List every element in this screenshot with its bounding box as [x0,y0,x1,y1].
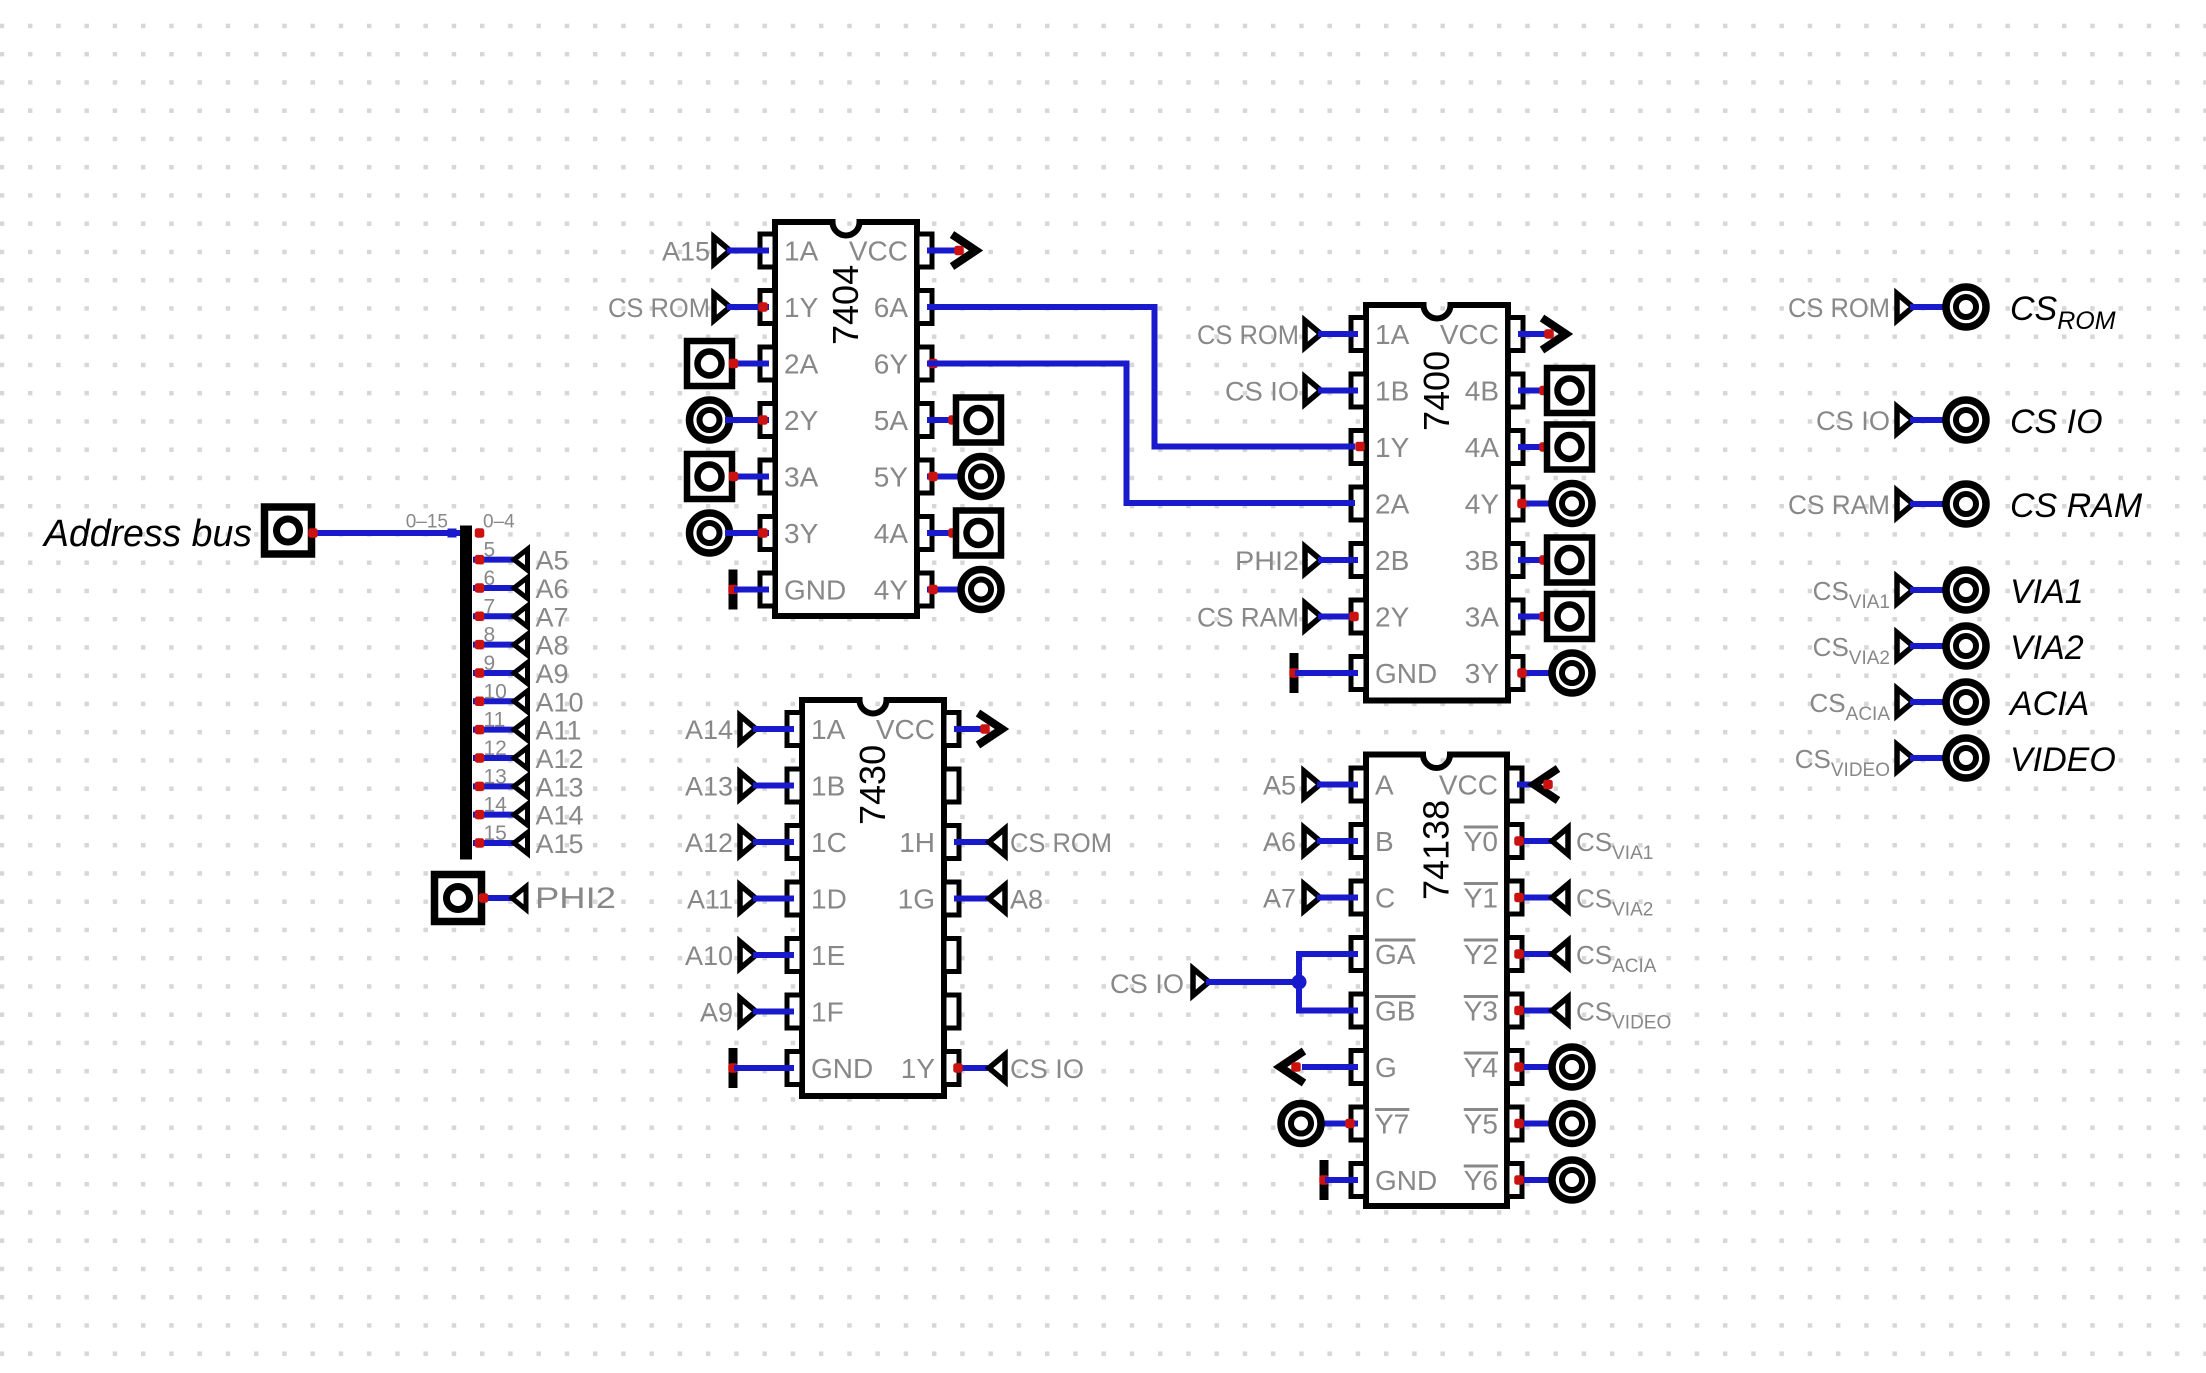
svg-text:A12: A12 [685,828,733,858]
output port VIA1: pad (double circle) [1946,570,1986,610]
svg-text:1E: 1E [811,940,845,971]
wire U4 GND to ground [1328,1177,1355,1183]
svg-text:C: C [1375,883,1395,914]
IC 7430 left pin stub row 6 [787,995,802,1028]
node: red dot at Address bus port [308,528,318,538]
IC 7404 right pin stub row 6 [917,517,932,550]
IC 7400 left pin stub row 6 [1351,600,1366,633]
wire U4 Y3 to CS VIDEO label [1520,1008,1552,1014]
svg-text:GA: GA [1375,939,1416,970]
port (unconnected input) U1 3A [687,454,732,499]
svg-text:CS RAM: CS RAM [2010,487,2143,525]
IC 7404 left pin stub row 3 [760,347,775,380]
net label A7 -> U4 C [1263,884,1355,914]
IC 7430 left pin stub row 5 [787,939,802,972]
svg-text:CS IO: CS IO [1816,406,1890,436]
net label A14 -> U3 1A [685,715,791,745]
svg-text:CS ROM: CS ROM [1197,320,1299,350]
junction dot CS IO [1292,975,1307,990]
IC 7400 left pin stub row 2 [1351,374,1366,407]
output port VIDEO: pad (double circle) [1946,738,1986,778]
net label A9 -> U3 1F [700,998,791,1028]
port (unconnected input) U1 2A [687,341,732,386]
svg-text:A12: A12 [536,744,584,774]
port (unconnected output) U4 Y7 [1322,1121,1355,1127]
VCC symbol at U3 VCC [957,726,982,732]
IC 74138 left pin stub row 8 [1351,1164,1366,1197]
svg-text:4A: 4A [874,518,909,549]
bus bar (vertical) [460,526,472,860]
wire stub U1 6Y [930,361,940,367]
net label arrow CS ACIA at U4 Y2 [1552,941,1568,968]
svg-text:3A: 3A [784,462,819,493]
svg-text:VCC: VCC [1439,770,1498,801]
svg-text:1B: 1B [811,771,845,802]
IC 7400 left pin stub row 4 [1351,487,1366,520]
IC 74138 left pin stub row 7 [1351,1107,1366,1140]
svg-text:A14: A14 [536,801,584,831]
port (unconnected input) U2 3B [1521,557,1549,563]
IC 7400 right pin stub row 7 [1508,657,1523,690]
svg-text:G: G [1375,1052,1397,1083]
svg-text:1F: 1F [811,997,844,1028]
wire U3 1H to CS ROM label [957,839,989,845]
IC 74138 left pin stub row 5 [1351,994,1366,1027]
svg-text:GB: GB [1375,996,1415,1027]
port (unconnected output) U2 3Y [1521,670,1555,676]
wire U2 GND to ground [1298,670,1355,676]
port (unconnected output) U4 Y5 [1520,1121,1555,1127]
IC 7400 right pin stub row 5 [1508,544,1523,577]
wire U1 3A port [733,474,766,480]
bus tap A12 [475,737,584,774]
port (unconnected output) U1 4Y [930,587,964,593]
net label arrow A8 at U3 1G [989,885,1005,912]
net label arrow PHI2 [512,887,526,910]
wire U1 6Y to U2 2A [930,364,1352,504]
wire U3 GND to ground [737,1065,791,1071]
IC 7430 left pin stub row 7 [787,1052,802,1085]
svg-text:15: 15 [484,822,507,845]
svg-text:6: 6 [484,567,496,590]
svg-text:A9: A9 [536,659,569,689]
IC 7404 right pin stub row 5 [917,460,932,493]
IC 7430 left pin stub row 4 [787,882,802,915]
bus tap A9 [475,652,569,689]
svg-text:2Y: 2Y [1375,602,1410,633]
IC 7404 right pin stub row 1 [917,234,932,267]
svg-text:GND: GND [1375,1165,1437,1196]
IC 74138 right pin stub row 5 [1507,994,1522,1027]
IC 7430 right pin stub row 7 [944,1052,959,1085]
svg-text:1A: 1A [1375,319,1410,350]
svg-text:1B: 1B [1375,376,1409,407]
IC 74138 left pin stub row 4 [1351,938,1366,971]
IC 7404 right pin stub row 3 [917,347,932,380]
port (unconnected input) U2 3A [1521,614,1549,620]
svg-text:A7: A7 [536,602,569,632]
ground symbol at U3 GND [729,1048,738,1088]
IC 7400 right pin stub row 4 [1508,487,1523,520]
svg-text:Y7: Y7 [1375,1109,1409,1140]
wire U1 3Y port [728,530,766,536]
wire PHI2 port to label arrow [484,895,512,901]
svg-text:GND: GND [784,575,846,606]
svg-text:A10: A10 [536,687,584,717]
IC 7400 body [1366,305,1508,701]
wire U4 Y0 to CS VIA1 label [1520,838,1552,844]
svg-text:74138: 74138 [1416,800,1457,900]
output port CS IO: wire [1913,417,1948,423]
svg-text:Y3: Y3 [1464,996,1498,1027]
svg-text:6Y: 6Y [874,349,909,380]
svg-text:4Y: 4Y [874,575,909,606]
junction: red dot bus entry [475,528,485,538]
svg-text:13: 13 [484,765,507,788]
IC 7404 left pin stub row 2 [760,291,775,324]
wire PHI2 to U2 2B [1321,557,1355,563]
svg-text:B: B [1375,826,1394,857]
IC 7400 left pin stub row 5 [1351,544,1366,577]
IC 7430 left pin stub row 1 [787,713,802,746]
net label A10 -> U3 1E [685,941,791,971]
node: red dot at PHI2 port [479,893,489,903]
output port CS RAM: arrow [1897,491,1913,518]
bus tap A6 [475,567,569,604]
output port CS IO: pad (double circle) [1946,400,1986,440]
node: red dot at U2 1Y [1355,442,1365,452]
svg-text:VCC: VCC [849,236,908,267]
bus tap A10 [475,680,584,717]
svg-text:5: 5 [484,539,496,562]
svg-text:2A: 2A [1375,489,1410,520]
svg-text:A5: A5 [536,546,569,576]
svg-text:A7: A7 [1263,884,1296,914]
IC 7404 right pin stub row 7 [917,573,932,606]
svg-text:7: 7 [484,595,496,618]
svg-text:Y4: Y4 [1464,1052,1498,1083]
svg-text:2B: 2B [1375,545,1409,576]
output port CS RAM: pad (double circle) [1946,484,1986,524]
wire junction to U4 GB [1299,1008,1355,1014]
svg-text:ACIA: ACIA [2008,685,2089,723]
net label A6 -> U4 B [1263,827,1355,857]
svg-text:A14: A14 [685,715,733,745]
svg-text:12: 12 [484,737,507,760]
output port ACIA: pad (double circle) [1946,682,1986,722]
bus tap A15 [475,822,584,859]
svg-text:9: 9 [484,652,496,675]
svg-text:A11: A11 [687,885,733,915]
output port VIA1: arrow [1897,577,1913,604]
svg-text:A15: A15 [536,829,584,859]
svg-text:CS ROM: CS ROM [1010,828,1112,858]
IC 7430 right pin stub row 6 [944,995,959,1028]
svg-text:4Y: 4Y [1465,489,1500,520]
svg-text:10: 10 [484,680,507,703]
output port VIA2: pad (double circle) [1946,626,1986,666]
IC 74138 left pin stub row 2 [1351,825,1366,858]
bus tap A7 [475,595,569,632]
svg-text:7404: 7404 [825,265,866,345]
svg-text:CS RAM: CS RAM [1197,603,1299,633]
output port ACIA: arrow [1897,689,1913,716]
svg-text:CS ROM: CS ROM [608,293,710,323]
svg-text:VIDEO: VIDEO [2010,741,2116,779]
svg-text:A11: A11 [536,716,582,746]
svg-text:3B: 3B [1465,545,1499,576]
IC 74138 right pin stub row 2 [1507,825,1522,858]
net label A11 -> U3 1D [687,885,791,915]
svg-text:0–15: 0–15 [406,512,448,533]
svg-text:1Y: 1Y [784,292,819,323]
port (unconnected output) U4 Y4 [1520,1064,1555,1070]
wire U4 Y1 to CS VIA2 label [1520,895,1552,901]
svg-text:A6: A6 [536,574,569,604]
wire U1 6A to U2 1Y [930,307,1352,447]
IC 7400 right pin stub row 3 [1508,431,1523,464]
wire Address bus to bus bar [313,530,462,536]
IC 7400 right pin stub row 2 [1508,374,1523,407]
IC 7430 right pin stub row 2 [944,769,959,802]
port (unconnected input) U1 5A [930,417,958,423]
net label arrow CS VIDEO at U4 Y3 [1552,997,1568,1024]
wire junction to U4 GA [1299,954,1355,1011]
svg-text:CS IO: CS IO [2010,403,2103,441]
wire CS IO to U2 1B [1321,388,1355,394]
VCC symbol at U1 VCC [930,248,956,254]
IC 7430 right pin stub row 5 [944,939,959,972]
svg-text:Y0: Y0 [1464,826,1498,857]
IC 7404 body [775,222,917,616]
VCC symbol (left arrow) at U4 G [1305,1064,1355,1070]
svg-text:A13: A13 [536,772,584,802]
bus tap A14 [475,794,584,831]
svg-text:Y6: Y6 [1464,1165,1498,1196]
svg-text:1Y: 1Y [901,1053,936,1084]
svg-text:A9: A9 [700,998,733,1028]
IC 7400 right pin stub row 6 [1508,600,1523,633]
IC 7404 left pin stub row 7 [760,573,775,606]
net label A5 -> U4 A [1263,771,1355,801]
VCC symbol (left arrow) at U4 VCC [1520,782,1531,788]
IC 74138 body [1366,755,1507,1207]
port (unconnected output) U4 Y6 [1520,1177,1555,1183]
svg-text:A6: A6 [1263,827,1296,857]
svg-text:Y1: Y1 [1464,883,1498,914]
IC 74138 left pin stub row 1 [1351,768,1366,801]
svg-text:PHI2: PHI2 [535,882,616,915]
svg-text:GND: GND [811,1053,873,1084]
svg-text:VIA1: VIA1 [2010,573,2084,611]
svg-text:VCC: VCC [876,714,935,745]
IC 74138 right pin stub row 7 [1507,1107,1522,1140]
IC 7430 right pin stub row 3 [944,826,959,859]
net label arrow CS ROM at U3 1H [989,829,1005,856]
net label arrow CS VIA2 at U4 Y1 [1552,884,1568,911]
output port VIA2: arrow [1897,633,1913,660]
svg-text:Y2: Y2 [1464,939,1498,970]
net label A13 -> U3 1B [685,772,791,802]
svg-text:A8: A8 [1010,885,1043,915]
IC 74138 right pin stub row 8 [1507,1164,1522,1197]
wire U1 GND to ground [737,587,766,593]
svg-text:Address bus: Address bus [42,513,252,555]
svg-text:1A: 1A [811,714,846,745]
svg-text:11: 11 [484,709,506,732]
svg-text:3Y: 3Y [1465,658,1500,689]
wire A15 to U1 1A [730,248,766,254]
net label A12 -> U3 1C [685,828,791,858]
bus tap A13 [475,765,584,802]
IC 7404 right pin stub row 2 [917,291,932,324]
svg-text:7430: 7430 [852,745,893,825]
svg-text:4B: 4B [1465,376,1499,407]
svg-text:1A: 1A [784,236,819,267]
output port VIDEO: wire [1913,755,1948,761]
wire CS IO to junction [1209,979,1299,985]
svg-text:1C: 1C [811,827,847,858]
port (unconnected output) U1 2Y [690,400,730,440]
wire U3 1G to A8 label [957,896,989,902]
svg-text:2Y: 2Y [784,405,819,436]
svg-text:1Y: 1Y [1375,432,1410,463]
IC 74138 left pin stub row 3 [1351,881,1366,914]
svg-text:A8: A8 [536,631,569,661]
IC 74138 right pin stub row 1 [1507,768,1522,801]
svg-text:CS ROM: CS ROM [1788,293,1890,323]
bus tap A5 [475,539,569,576]
svg-text:5A: 5A [874,405,909,436]
IC 74138 right pin stub row 6 [1507,1051,1522,1084]
output port CS IO: arrow [1897,407,1913,434]
svg-text:A: A [1375,770,1394,801]
output port VIA1: wire [1913,587,1948,593]
port (unconnected input) U2 4A [1521,444,1549,450]
port (unconnected output) U1 5Y [930,474,964,480]
output port VIDEO: arrow [1897,745,1913,772]
IC 7404 left pin stub row 1 [760,234,775,267]
svg-text:CS IO: CS IO [1010,1054,1084,1084]
svg-text:CS IO: CS IO [1110,969,1184,999]
wire U1 2A port [733,361,766,367]
IC 7400 left pin stub row 1 [1351,318,1366,351]
output port VIA2: wire [1913,643,1948,649]
output port CSROM: pad (double circle) [1946,287,1986,327]
svg-text:8: 8 [484,624,496,647]
wire CS ROM to U1 1Y [730,304,766,310]
IC 7404 left pin stub row 5 [760,460,775,493]
svg-text:A15: A15 [662,237,710,267]
wire U1 2Y port [728,417,766,423]
IC 7430 left pin stub row 3 [787,826,802,859]
svg-text:CS RAM: CS RAM [1788,490,1890,520]
IC 7404 left pin stub row 6 [760,517,775,550]
svg-text:GND: GND [1375,658,1437,689]
output port CSROM: wire [1913,304,1948,310]
IC 74138 left pin stub row 6 [1351,1051,1366,1084]
IC 7430 right pin stub row 1 [944,713,959,746]
svg-text:VIA2: VIA2 [2010,629,2084,667]
bus tap A8 [475,624,569,661]
ground symbol at U2 GND [1290,653,1299,693]
port PHI2 (square pin) [435,875,482,922]
svg-text:A13: A13 [685,772,733,802]
IC 74138 right pin stub row 3 [1507,881,1522,914]
IC 7400 left pin stub row 7 [1351,657,1366,690]
svg-text:14: 14 [484,794,508,817]
IC 74138 right pin stub row 4 [1507,938,1522,971]
svg-text:3A: 3A [1465,602,1500,633]
output port ACIA: wire [1913,699,1948,705]
wire stub U1 6A [930,304,940,310]
IC 7430 body [802,700,944,1096]
wire U4 Y2 to CS ACIA label [1520,951,1552,957]
ground symbol at U4 GND [1320,1160,1329,1200]
wire CS RAM to U2 2Y [1321,614,1355,620]
port (unconnected output) U2 4Y [1521,501,1555,507]
svg-text:Y5: Y5 [1464,1109,1498,1140]
port (unconnected input) U2 4B [1521,388,1549,394]
svg-text:A5: A5 [1263,771,1296,801]
wire CS ROM to U2 1A [1321,331,1355,337]
svg-text:7400: 7400 [1416,351,1457,431]
svg-text:0–4: 0–4 [483,512,515,533]
svg-text:1D: 1D [811,884,847,915]
svg-text:PHI2: PHI2 [1235,546,1299,576]
IC 7400 left pin stub row 3 [1351,431,1366,464]
wire U3 1Y to CS IO label [957,1065,989,1071]
IC 7404 right pin stub row 4 [917,404,932,437]
svg-text:VCC: VCC [1440,319,1499,350]
svg-text:CS IO: CS IO [1225,377,1299,407]
svg-text:1G: 1G [898,884,935,915]
IC 7430 right pin stub row 4 [944,882,959,915]
port (unconnected output) U1 3Y [690,513,730,553]
bus tap A11 [475,709,582,746]
VCC symbol at U2 VCC [1521,331,1546,337]
IC 7430 left pin stub row 2 [787,769,802,802]
svg-text:3Y: 3Y [784,518,819,549]
svg-text:4A: 4A [1465,432,1500,463]
IC 7400 right pin stub row 1 [1508,318,1523,351]
svg-text:A10: A10 [685,941,733,971]
net label arrow CS VIA1 at U4 Y0 [1552,828,1568,855]
svg-text:5Y: 5Y [874,462,909,493]
IC 7404 left pin stub row 4 [760,404,775,437]
net label arrow CS IO at U3 1Y [989,1055,1005,1082]
ground symbol at U1 GND [729,570,738,610]
port (unconnected input) U1 4A [930,530,958,536]
output port CS RAM: wire [1913,501,1948,507]
output port CSROM: arrow [1897,294,1913,321]
svg-text:2A: 2A [784,349,819,380]
svg-text:1H: 1H [899,827,935,858]
svg-text:6A: 6A [874,292,909,323]
port Address bus (square pin) [265,507,312,554]
